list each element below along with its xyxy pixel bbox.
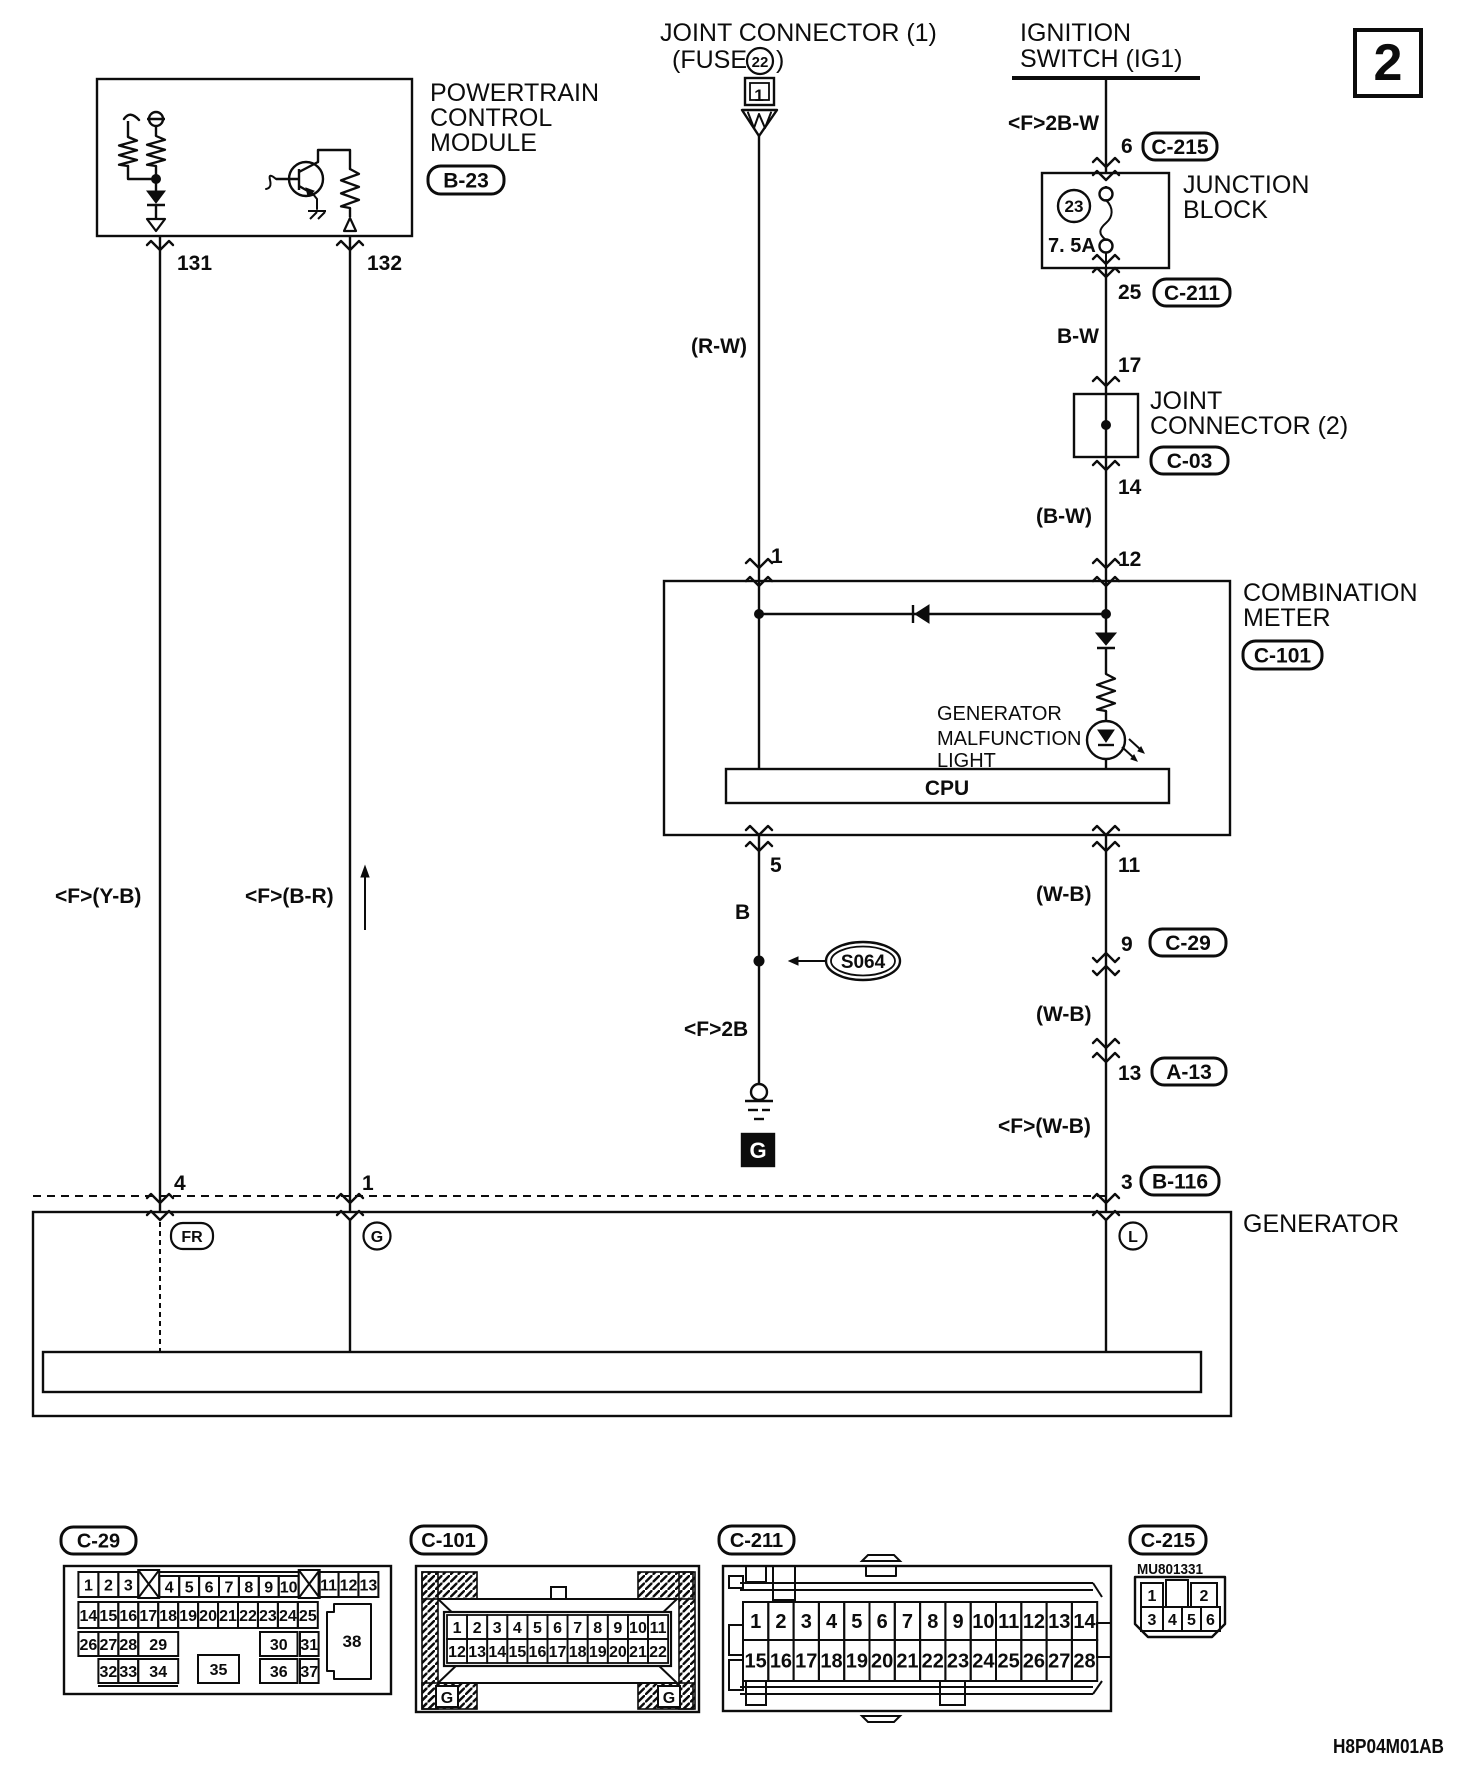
svg-text:CONNECTOR (2): CONNECTOR (2)	[1150, 412, 1348, 440]
node right junction	[1101, 609, 1111, 619]
svg-text:(W-B): (W-B)	[1036, 883, 1092, 906]
svg-text:34: 34	[149, 1664, 167, 1681]
chassis mark at Q1 emitter	[308, 210, 326, 212]
svg-text:21: 21	[896, 1651, 918, 1673]
svg-text:G: G	[441, 1690, 453, 1707]
svg-text:9: 9	[613, 1620, 622, 1637]
svg-text:17: 17	[795, 1651, 817, 1673]
svg-text:BLOCK: BLOCK	[1183, 196, 1268, 224]
svg-text:19: 19	[846, 1651, 868, 1673]
transistor Q1 (PCM internal)	[289, 162, 323, 196]
svg-text:CPU: CPU	[925, 777, 969, 800]
svg-text:12: 12	[340, 1577, 358, 1594]
svg-text:15: 15	[99, 1608, 117, 1625]
connector diagram C-211	[719, 1526, 794, 1554]
svg-text:27: 27	[1048, 1651, 1070, 1673]
svg-text:31: 31	[300, 1637, 318, 1654]
blocked cavity X	[299, 1570, 320, 1598]
svg-text:1: 1	[453, 1620, 462, 1637]
page number box 2	[1355, 30, 1421, 96]
svg-text:21: 21	[219, 1608, 237, 1625]
generator pin 3 terminal L	[1093, 1194, 1119, 1203]
wire cross link	[759, 613, 1106, 615]
open arrow down at pin 131	[147, 219, 165, 231]
wire inside meter, left branch	[758, 581, 760, 769]
female terminal symbol	[742, 110, 777, 136]
svg-text:(FUSE: (FUSE	[672, 46, 747, 74]
svg-text:11: 11	[320, 1577, 337, 1594]
key tab	[551, 1587, 566, 1599]
index mark G right	[658, 1686, 680, 1707]
connector diagram C-101	[411, 1526, 486, 1554]
svg-text:A-13: A-13	[1166, 1061, 1212, 1084]
svg-text:14: 14	[1073, 1611, 1096, 1633]
svg-text:20: 20	[199, 1608, 217, 1625]
wire W-B meter to generator L	[1105, 835, 1107, 1213]
blocked cavity X	[138, 1570, 159, 1598]
svg-text:37: 37	[300, 1664, 318, 1681]
svg-text:11: 11	[650, 1620, 667, 1637]
svg-text:28: 28	[1073, 1651, 1095, 1673]
wire 2B-W: ignition switch to junction block	[1105, 80, 1107, 173]
svg-text:5: 5	[533, 1620, 542, 1637]
svg-text:12: 12	[448, 1644, 466, 1661]
svg-text:C-101: C-101	[421, 1530, 475, 1552]
svg-text:5: 5	[770, 854, 782, 877]
svg-text:22: 22	[752, 54, 769, 71]
current direction arrow	[364, 876, 366, 930]
circled fuse number 22	[747, 48, 773, 74]
svg-text:H8P04M01AB: H8P04M01AB	[1333, 1736, 1444, 1758]
fuse 23 symbol	[1105, 186, 1107, 188]
side wedges	[438, 1599, 460, 1683]
svg-text:2: 2	[1374, 34, 1403, 92]
svg-text:16: 16	[119, 1608, 137, 1625]
node junction of R1/R2/diode	[151, 174, 161, 184]
svg-text:B: B	[735, 901, 750, 924]
svg-text:3: 3	[1121, 1171, 1133, 1194]
svg-text:21: 21	[629, 1644, 647, 1661]
svg-text:28: 28	[119, 1637, 137, 1654]
svg-text:B-23: B-23	[443, 170, 489, 193]
svg-text:1: 1	[750, 1611, 761, 1633]
svg-text:25: 25	[299, 1608, 317, 1625]
svg-text:C-03: C-03	[1167, 450, 1213, 473]
svg-text:15: 15	[745, 1651, 767, 1673]
svg-text:GENERATOR: GENERATOR	[937, 703, 1062, 725]
housing tabs	[729, 1576, 743, 1588]
resistor R3 (PCM internal, right)	[341, 169, 359, 208]
svg-text:<F>(B-R): <F>(B-R)	[245, 885, 334, 908]
svg-text:9: 9	[1121, 933, 1133, 956]
svg-text:G: G	[371, 1229, 383, 1246]
svg-text:38: 38	[343, 1632, 362, 1651]
wire inside meter, right branch	[1105, 581, 1107, 633]
index mark G left	[436, 1686, 458, 1707]
svg-text:23: 23	[1065, 197, 1084, 216]
junction block exit pin 25 C-211	[1093, 255, 1119, 264]
svg-text:12: 12	[1023, 1611, 1045, 1633]
svg-text:6: 6	[553, 1620, 562, 1637]
svg-text:16: 16	[529, 1644, 547, 1661]
svg-text:C-101: C-101	[1254, 645, 1312, 668]
svg-text:1: 1	[84, 1577, 93, 1594]
svg-text:C-211: C-211	[1164, 282, 1220, 305]
svg-text:8: 8	[927, 1611, 938, 1633]
svg-text:3: 3	[493, 1620, 502, 1637]
circled fuse number 23	[1058, 190, 1090, 222]
svg-text:G: G	[749, 1138, 766, 1163]
svg-text:10: 10	[972, 1611, 994, 1633]
svg-text:1: 1	[771, 545, 783, 568]
svg-text:C-29: C-29	[1165, 932, 1211, 955]
open arrow up at pin 132	[344, 218, 356, 231]
svg-text:G: G	[663, 1690, 675, 1707]
svg-text:17: 17	[549, 1644, 567, 1661]
cavity 38	[327, 1604, 371, 1679]
svg-text:C-211: C-211	[730, 1530, 783, 1552]
svg-text:25: 25	[1118, 281, 1142, 304]
svg-text:14: 14	[79, 1608, 97, 1625]
pin grid C-211	[743, 1602, 768, 1640]
svg-text:CONTROL: CONTROL	[430, 104, 552, 132]
generator box	[33, 1212, 1231, 1416]
svg-text:6: 6	[1121, 135, 1133, 158]
CPU block	[726, 769, 1169, 803]
pin 13 connector A-13	[1093, 1039, 1119, 1048]
svg-text:12: 12	[1118, 548, 1141, 571]
svg-text:11: 11	[998, 1611, 1019, 1633]
terminal circle (PCM internal pull-up)	[149, 112, 163, 126]
svg-text:7: 7	[573, 1620, 582, 1637]
svg-text:25: 25	[998, 1651, 1020, 1673]
svg-text:3: 3	[1148, 1612, 1157, 1629]
svg-text:4: 4	[1168, 1612, 1177, 1629]
svg-text:FR: FR	[181, 1229, 203, 1246]
LED generator malfunction light	[1087, 721, 1125, 759]
svg-text:MU801331: MU801331	[1137, 1561, 1203, 1578]
svg-text:13: 13	[1118, 1062, 1141, 1085]
resistor R2 (PCM internal, middle)	[155, 126, 157, 136]
wire G inside generator	[349, 1220, 351, 1352]
diode D2 on cross link	[912, 605, 914, 623]
wire L inside generator	[1105, 1220, 1107, 1352]
housing rails	[740, 1582, 1093, 1584]
svg-text:20: 20	[871, 1651, 893, 1673]
wire Q1 collector to R3	[318, 150, 350, 169]
svg-text:13: 13	[468, 1644, 486, 1661]
svg-text:14: 14	[1118, 476, 1142, 499]
svg-text:METER: METER	[1243, 604, 1331, 632]
svg-text:3: 3	[801, 1611, 812, 1633]
svg-text:29: 29	[149, 1637, 167, 1654]
svg-text:26: 26	[80, 1637, 98, 1654]
wire R-W: joint connector(1) to combination meter pin 1	[758, 136, 760, 581]
svg-text:MODULE: MODULE	[430, 129, 537, 157]
svg-text:L: L	[1128, 1229, 1138, 1246]
svg-text:8: 8	[593, 1620, 602, 1637]
node left junction	[754, 609, 764, 619]
resistor R4 (lamp series)	[1097, 674, 1115, 711]
svg-text:JOINT CONNECTOR (1): JOINT CONNECTOR (1)	[660, 19, 937, 47]
combination meter box C-101	[664, 581, 1230, 835]
housing tab	[98, 1685, 178, 1687]
svg-text:5: 5	[851, 1611, 862, 1633]
svg-text:6: 6	[877, 1611, 888, 1633]
svg-text:1: 1	[754, 86, 763, 105]
joint connector (1) terminal box pin 1	[745, 78, 774, 105]
svg-text:7: 7	[902, 1611, 913, 1633]
svg-text:C-215: C-215	[1151, 136, 1209, 159]
ground ref box G	[742, 1134, 774, 1166]
svg-text:22: 22	[649, 1644, 667, 1661]
wire B: meter pin5 to ground	[758, 835, 760, 1085]
svg-text:33: 33	[119, 1664, 137, 1681]
svg-text:9: 9	[952, 1611, 963, 1633]
meter pin 11	[1093, 826, 1119, 835]
svg-text:22: 22	[922, 1651, 944, 1673]
svg-text:4: 4	[826, 1611, 838, 1633]
svg-text:<F>2B: <F>2B	[684, 1018, 748, 1041]
svg-text:COMBINATION: COMBINATION	[1243, 579, 1418, 607]
svg-text:(W-B): (W-B)	[1036, 1003, 1092, 1026]
harness boundary dashed line	[33, 1195, 1106, 1197]
pin 14	[1093, 461, 1119, 470]
svg-text:17: 17	[139, 1608, 157, 1625]
connector diagram C-29	[61, 1527, 136, 1554]
svg-text:131: 131	[177, 252, 212, 275]
svg-text:1: 1	[362, 1172, 374, 1195]
svg-text:SWITCH (IG1): SWITCH (IG1)	[1020, 45, 1183, 73]
svg-text:13: 13	[1048, 1611, 1070, 1633]
svg-text:C-215: C-215	[1141, 1530, 1195, 1552]
housing outline	[1135, 1577, 1225, 1637]
svg-text:C-29: C-29	[77, 1531, 120, 1553]
svg-text:<F>2B-W: <F>2B-W	[1008, 112, 1099, 135]
hatched housing walls	[422, 1572, 477, 1599]
pin grid C-101	[444, 1612, 671, 1666]
connector diagram C-215	[1130, 1526, 1206, 1554]
ground symbol	[751, 1084, 767, 1100]
svg-text:10: 10	[280, 1579, 298, 1596]
housing inner outline	[438, 1598, 677, 1600]
LED emission arrows	[1129, 739, 1141, 750]
connector ref B-23	[428, 166, 504, 194]
svg-text:B-116: B-116	[1152, 1171, 1208, 1194]
svg-text:18: 18	[569, 1644, 587, 1661]
svg-text:B-W: B-W	[1057, 325, 1099, 348]
resistor R1 (PCM internal, left)	[124, 115, 139, 120]
svg-text:(R-W): (R-W)	[691, 335, 747, 358]
wire B-W junction block to joint connector 2	[1105, 268, 1107, 394]
svg-text:20: 20	[609, 1644, 627, 1661]
svg-text:11: 11	[1118, 854, 1141, 877]
splice S064	[754, 956, 765, 967]
svg-text:30: 30	[270, 1637, 288, 1654]
svg-text:23: 23	[259, 1608, 277, 1625]
svg-text:JOINT: JOINT	[1150, 387, 1222, 415]
svg-text:18: 18	[159, 1608, 177, 1625]
svg-text:32: 32	[99, 1664, 117, 1681]
svg-text:23: 23	[947, 1651, 969, 1673]
diode D3	[1096, 633, 1116, 645]
svg-text:(B-W): (B-W)	[1036, 505, 1092, 528]
meter pin 5	[746, 826, 772, 835]
svg-text:GENERATOR: GENERATOR	[1243, 1210, 1399, 1238]
svg-text:8: 8	[244, 1579, 253, 1596]
svg-text:1: 1	[1148, 1588, 1157, 1605]
svg-text:26: 26	[1023, 1651, 1045, 1673]
wire FR inside generator (dashed)	[159, 1222, 161, 1352]
svg-text:24: 24	[972, 1651, 995, 1673]
svg-text:36: 36	[270, 1664, 288, 1681]
svg-text:5: 5	[185, 1579, 194, 1596]
svg-text:<F>(Y-B): <F>(Y-B)	[55, 885, 141, 908]
svg-text:7: 7	[224, 1579, 233, 1596]
pin 132	[337, 241, 363, 250]
svg-text:MALFUNCTION: MALFUNCTION	[937, 728, 1081, 750]
svg-text:27: 27	[100, 1637, 118, 1654]
svg-text:24: 24	[279, 1608, 297, 1625]
svg-text:22: 22	[239, 1608, 257, 1625]
svg-text:19: 19	[589, 1644, 607, 1661]
svg-text:3: 3	[124, 1577, 133, 1594]
junction block box	[1042, 173, 1169, 268]
svg-text:4: 4	[174, 1172, 186, 1195]
ignition switch bus bar	[1012, 76, 1200, 80]
svg-text:POWERTRAIN: POWERTRAIN	[430, 79, 599, 107]
svg-text:13: 13	[360, 1577, 378, 1594]
wire G: PCM pin132 to generator	[349, 236, 351, 1213]
joint connector (2) box C-03	[1074, 394, 1138, 457]
svg-text:2: 2	[775, 1611, 786, 1633]
svg-text:14: 14	[488, 1644, 506, 1661]
svg-text:35: 35	[210, 1662, 228, 1679]
svg-text:): )	[776, 46, 784, 74]
powertrain control module box B-23	[97, 79, 412, 236]
svg-text:132: 132	[367, 252, 402, 275]
svg-text:2: 2	[473, 1620, 482, 1637]
svg-text:16: 16	[770, 1651, 792, 1673]
svg-text:6: 6	[1206, 1612, 1215, 1629]
generator internal block	[43, 1352, 1201, 1392]
svg-text:18: 18	[820, 1651, 842, 1673]
svg-text:2: 2	[1200, 1588, 1209, 1605]
svg-text:19: 19	[179, 1608, 197, 1625]
svg-text:6: 6	[205, 1579, 214, 1596]
svg-text:17: 17	[1118, 354, 1141, 377]
zener diode D1 to pin 131	[155, 183, 157, 191]
svg-text:2: 2	[104, 1577, 113, 1594]
svg-text:4: 4	[513, 1620, 522, 1637]
svg-text:JUNCTION: JUNCTION	[1183, 171, 1309, 199]
svg-text:10: 10	[629, 1620, 647, 1637]
svg-text:15: 15	[508, 1644, 526, 1661]
wire (B-W) joint connector 2 to meter pin 12	[1105, 457, 1107, 581]
svg-text:5: 5	[1187, 1612, 1196, 1629]
svg-text:<F>(W-B): <F>(W-B)	[998, 1115, 1091, 1138]
svg-text:9: 9	[264, 1579, 273, 1596]
svg-text:S064: S064	[841, 952, 886, 973]
splice name oval S064	[826, 942, 900, 980]
pin 131	[147, 241, 173, 250]
svg-text:IGNITION: IGNITION	[1020, 19, 1131, 47]
wire FR: PCM pin131 to generator	[159, 236, 161, 1213]
svg-text:4: 4	[165, 1579, 174, 1596]
svg-text:7. 5A: 7. 5A	[1048, 235, 1096, 257]
